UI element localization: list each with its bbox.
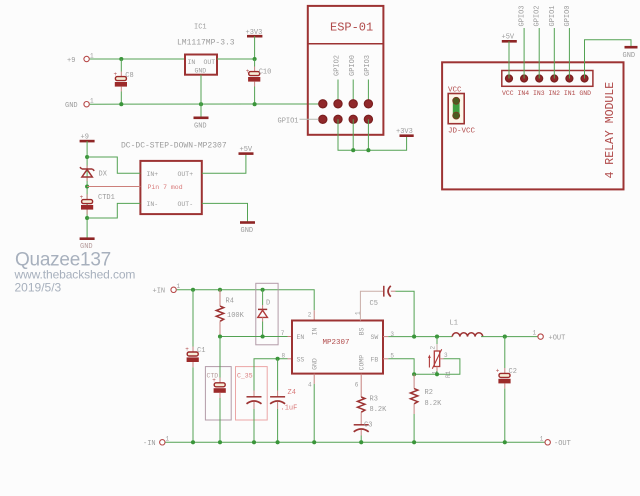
node +3V3 junction <box>253 57 257 61</box>
svg-text:R4: R4 <box>226 298 234 306</box>
wire relay GND pin to ground <box>585 40 632 79</box>
svg-text:5: 5 <box>390 352 394 359</box>
pin number 5 (FB) <box>390 352 394 359</box>
node rail Z4 <box>276 440 280 444</box>
svg-text:VCC IN4 IN3 IN2 IN1 GND: VCC IN4 IN3 IN2 IN1 GND <box>502 90 591 97</box>
net label GPIO0 (relay) <box>564 5 572 26</box>
supply +5V (dc-dc out) <box>239 146 254 154</box>
svg-text:C1: C1 <box>197 347 205 355</box>
wire GPIO3 to IN4 <box>523 28 525 79</box>
svg-text:GND: GND <box>623 52 636 60</box>
node ESP bottom junction b <box>366 148 370 152</box>
wire bottom rail <box>165 441 544 443</box>
net label GPIO2 (ESP) <box>334 55 342 76</box>
node C8 bottom junction <box>119 102 123 106</box>
svg-text:GND: GND <box>311 358 318 370</box>
svg-text:CTD1: CTD1 <box>98 194 115 202</box>
svg-text:IN-: IN- <box>147 201 159 208</box>
pin number 8 (SS) <box>282 352 286 359</box>
svg-text:1: 1 <box>540 435 544 442</box>
supply +9 (dc-dc) <box>80 134 95 142</box>
wire OUT+ to +5V <box>202 154 246 173</box>
svg-text:2: 2 <box>430 346 437 350</box>
svg-text:OUT+: OUT+ <box>178 171 194 178</box>
svg-text:C10: C10 <box>259 69 272 77</box>
capacitor C10 <box>246 59 272 104</box>
svg-text:1: 1 <box>177 283 181 290</box>
node dx top junction <box>85 155 89 159</box>
node R4 top <box>218 288 222 292</box>
svg-text:+: + <box>80 194 84 201</box>
wire FB row <box>383 359 437 375</box>
svg-text:1: 1 <box>166 435 170 442</box>
wire +5V to VCC pin <box>508 41 510 78</box>
svg-text:LM1117MP-3.3: LM1117MP-3.3 <box>177 39 235 48</box>
node D bottom <box>261 334 265 338</box>
capacitor C_35 <box>247 397 262 443</box>
svg-text:+: + <box>496 368 500 375</box>
group frame CTD <box>205 367 231 420</box>
svg-text:GND: GND <box>194 123 207 131</box>
pin number 7 (EN) <box>281 330 285 337</box>
wire GPIO2 stub <box>337 80 339 104</box>
node C2 top <box>503 335 507 339</box>
node rail GND4 <box>312 440 316 444</box>
wire GPIO0 to IN1 <box>568 28 570 79</box>
svg-text:4 RELAY MODULE: 4 RELAY MODULE <box>604 82 617 179</box>
wire pin 7 mod (red) <box>87 186 140 188</box>
svg-text:GND: GND <box>65 102 78 110</box>
wire +IN top rail <box>177 290 315 321</box>
diode D <box>258 290 270 337</box>
svg-text:IC1: IC1 <box>194 24 207 32</box>
group frame C_35 <box>236 367 268 420</box>
capacitor CTD1 <box>80 194 115 215</box>
svg-text:IN+: IN+ <box>147 171 159 178</box>
wire +9 column <box>86 141 88 238</box>
node C8 top junction <box>119 57 123 61</box>
svg-text:8.2K: 8.2K <box>370 406 388 414</box>
connector pin -IN <box>143 435 170 448</box>
ground symbol (relay) <box>623 47 638 60</box>
svg-text:C5: C5 <box>370 300 378 308</box>
wire L1 to +OUT <box>481 336 538 338</box>
svg-text:R3: R3 <box>370 396 378 404</box>
pin number 1 (BS) <box>355 311 362 315</box>
wire junction to IN- <box>87 203 140 218</box>
net label GPIO1 (relay) <box>549 5 557 26</box>
svg-text:1: 1 <box>533 329 537 336</box>
wire R1 top <box>436 337 438 351</box>
wire GPIO3 stub <box>367 80 369 104</box>
svg-text:C2: C2 <box>509 368 517 376</box>
wire IC1 GND pin <box>200 75 202 118</box>
wire GPIO1 to IN2 <box>553 28 555 79</box>
svg-text:+: + <box>246 68 250 75</box>
ESP pin row 1 <box>319 100 373 108</box>
supply +3V3 (IC1 output) <box>246 29 263 59</box>
pin number 2 (IN) <box>308 311 312 318</box>
capacitor Z4 <box>270 359 297 443</box>
wire GND rail to ESP pin <box>90 103 323 105</box>
svg-text:SW: SW <box>371 334 379 341</box>
svg-text:JD-VCC: JD-VCC <box>448 127 476 135</box>
svg-text:-IN: -IN <box>143 440 156 448</box>
svg-text:D: D <box>266 300 270 308</box>
wire GPIO2 to IN3 <box>538 28 540 79</box>
module DC-DC-STEP-DOWN-MP2307 <box>121 142 227 215</box>
wire SS row <box>254 359 292 397</box>
svg-text:+: + <box>212 377 216 384</box>
net label GPIO3 (ESP) <box>364 55 372 76</box>
wire +9 to IC1 IN <box>90 58 185 60</box>
capacitor C1 <box>185 290 205 443</box>
node rail C2 <box>503 440 507 444</box>
connector pin GND left <box>65 98 94 111</box>
node rail C3 <box>359 440 363 444</box>
inductor L1 <box>450 319 483 336</box>
svg-text:SS: SS <box>297 356 305 363</box>
svg-text:Z4: Z4 <box>288 389 296 397</box>
svg-text:MP2307: MP2307 <box>323 339 350 347</box>
node rail R2 <box>412 440 416 444</box>
svg-text:GPIO3: GPIO3 <box>519 5 527 26</box>
pin number 3 (SW) <box>390 331 394 338</box>
svg-text:8: 8 <box>282 352 286 359</box>
svg-text:+: + <box>185 346 189 353</box>
connector pin +9 <box>67 53 94 65</box>
regulator IC1 LM1117MP-3.3 <box>177 24 235 75</box>
wire IC1 OUT to +3V3 <box>217 58 255 60</box>
ground symbol (dc-dc input) <box>80 239 95 251</box>
wire BS to C5 (pale) <box>360 291 383 320</box>
node R4 bottom <box>218 334 222 338</box>
pin number 6 (COMP) <box>355 381 359 388</box>
svg-text:3: 3 <box>390 331 394 338</box>
svg-text:L1: L1 <box>450 319 458 327</box>
supply +5V (relay) <box>502 33 517 41</box>
svg-text:+: + <box>114 71 118 78</box>
group frame D <box>256 283 278 345</box>
wire ESP pin3 bottom stub <box>352 119 354 150</box>
node R2 top <box>412 372 416 376</box>
node C5-SW junction <box>412 335 416 339</box>
node R1 bottom junction <box>435 372 439 376</box>
wire GND pin 4 <box>313 374 315 443</box>
svg-text:3: 3 <box>444 352 448 359</box>
svg-text:C3: C3 <box>364 422 372 430</box>
svg-text:FB: FB <box>371 356 379 363</box>
pin number 4 (GND) <box>308 381 312 388</box>
svg-text:2: 2 <box>308 311 312 318</box>
connector pin -OUT <box>540 435 571 448</box>
watermark date <box>15 280 62 294</box>
net label GPIO3 (relay) <box>519 5 527 26</box>
svg-text:GPIO2: GPIO2 <box>534 5 542 26</box>
svg-text:C_35: C_35 <box>237 373 253 380</box>
wire junction to IN+ <box>87 157 140 173</box>
resistor R3 <box>358 374 388 425</box>
svg-text:GPIO2: GPIO2 <box>334 55 342 76</box>
node C1 top <box>191 288 195 292</box>
svg-text:GND: GND <box>241 227 254 235</box>
svg-text:GPIO0: GPIO0 <box>349 55 357 76</box>
svg-text:6: 6 <box>355 381 359 388</box>
relay header labels <box>502 90 591 97</box>
capacitor C8 <box>114 59 134 104</box>
svg-text:GPIO1: GPIO1 <box>278 117 299 125</box>
svg-text:4: 4 <box>308 381 312 388</box>
wire ESP pin2 bottom to +3V3 <box>338 119 407 150</box>
node ESP bottom junction a <box>351 148 355 152</box>
module 4 RELAY MODULE <box>442 62 623 189</box>
svg-text:OUT: OUT <box>204 59 216 66</box>
svg-text:1: 1 <box>90 53 94 60</box>
svg-text:BS: BS <box>358 327 365 335</box>
ESP pin row 2 <box>319 115 373 123</box>
diode DX (zener) <box>80 166 108 182</box>
svg-text:2019/5/3: 2019/5/3 <box>15 280 62 294</box>
supply +3V3 (ESP) <box>396 128 414 136</box>
wire R1 bottom <box>436 367 438 375</box>
svg-text:+9: +9 <box>67 57 75 65</box>
capacitor C3 <box>354 422 373 443</box>
svg-text:GPIO1: GPIO1 <box>549 5 557 26</box>
wire C5 to SW node <box>391 291 414 336</box>
jumper JP-VCC <box>448 86 476 135</box>
svg-text:GPIO0: GPIO0 <box>564 5 572 26</box>
svg-text:EN: EN <box>297 334 305 341</box>
svg-text:ESP-01: ESP-01 <box>330 21 373 35</box>
wire R1 wiper loop <box>437 359 460 375</box>
svg-text:IN: IN <box>311 327 318 335</box>
svg-text:IN: IN <box>188 59 196 66</box>
svg-text:7: 7 <box>281 330 285 337</box>
node rail C1 <box>191 440 195 444</box>
capacitor C5 <box>370 286 391 308</box>
wire GPIO0 stub <box>352 80 354 104</box>
node in- junction <box>85 216 89 220</box>
svg-text:Pin 7 mod: Pin 7 mod <box>148 184 183 191</box>
svg-text:1: 1 <box>90 98 94 105</box>
wire ESP pin4 bottom stub <box>367 119 369 150</box>
watermark url <box>14 268 136 282</box>
ground symbol (dc-dc out) <box>240 223 255 235</box>
node R1-SW junction <box>435 335 439 339</box>
node Z4 top <box>276 357 280 361</box>
connector pin +OUT <box>533 329 566 342</box>
resistor R4 <box>216 290 244 337</box>
svg-text:R2: R2 <box>425 389 433 397</box>
net label GPIO0 (ESP) <box>349 55 357 76</box>
svg-text:8.2K: 8.2K <box>425 400 443 408</box>
svg-text:+OUT: +OUT <box>549 334 566 342</box>
svg-text:1: 1 <box>355 311 362 315</box>
trimmer R1 <box>428 346 452 379</box>
wire EN row <box>220 336 292 338</box>
node rail CTD <box>218 440 222 444</box>
connector pin +IN <box>153 283 181 296</box>
svg-text:-OUT: -OUT <box>554 440 571 448</box>
module ESP-01 <box>308 6 384 135</box>
svg-text:.1uF: .1uF <box>281 404 298 412</box>
node C10 bottom junction <box>253 102 257 106</box>
svg-text:DC-DC-STEP-DOWN-MP2307: DC-DC-STEP-DOWN-MP2307 <box>121 142 227 151</box>
svg-text:GND: GND <box>195 68 207 75</box>
node IC1 GND junction <box>199 102 203 106</box>
relay header pins <box>506 75 589 82</box>
net label GPIO1 with leader <box>278 117 319 125</box>
capacitor C2 <box>496 337 517 443</box>
svg-text:DX: DX <box>99 171 108 179</box>
watermark Quazee137 <box>15 250 111 271</box>
wire SW row <box>383 336 452 338</box>
ground symbol under IC1 <box>194 118 209 131</box>
svg-text:OUT-: OUT- <box>178 201 194 208</box>
node rail C_35 <box>252 440 256 444</box>
resistor R2 <box>410 374 442 442</box>
node D top <box>261 288 265 292</box>
node pin7 junction <box>85 184 89 188</box>
relay header outline <box>502 71 593 87</box>
ic MP2307 <box>292 321 383 374</box>
svg-text:+IN: +IN <box>153 288 166 296</box>
svg-text:GPIO3: GPIO3 <box>364 55 372 76</box>
svg-text:COMP: COMP <box>358 355 365 371</box>
svg-text:100K: 100K <box>227 312 245 320</box>
svg-text:C8: C8 <box>125 72 133 80</box>
wire OUT- to ground <box>202 203 248 222</box>
capacitor CTD <box>212 337 226 443</box>
net label GPIO2 (relay) <box>534 5 542 26</box>
